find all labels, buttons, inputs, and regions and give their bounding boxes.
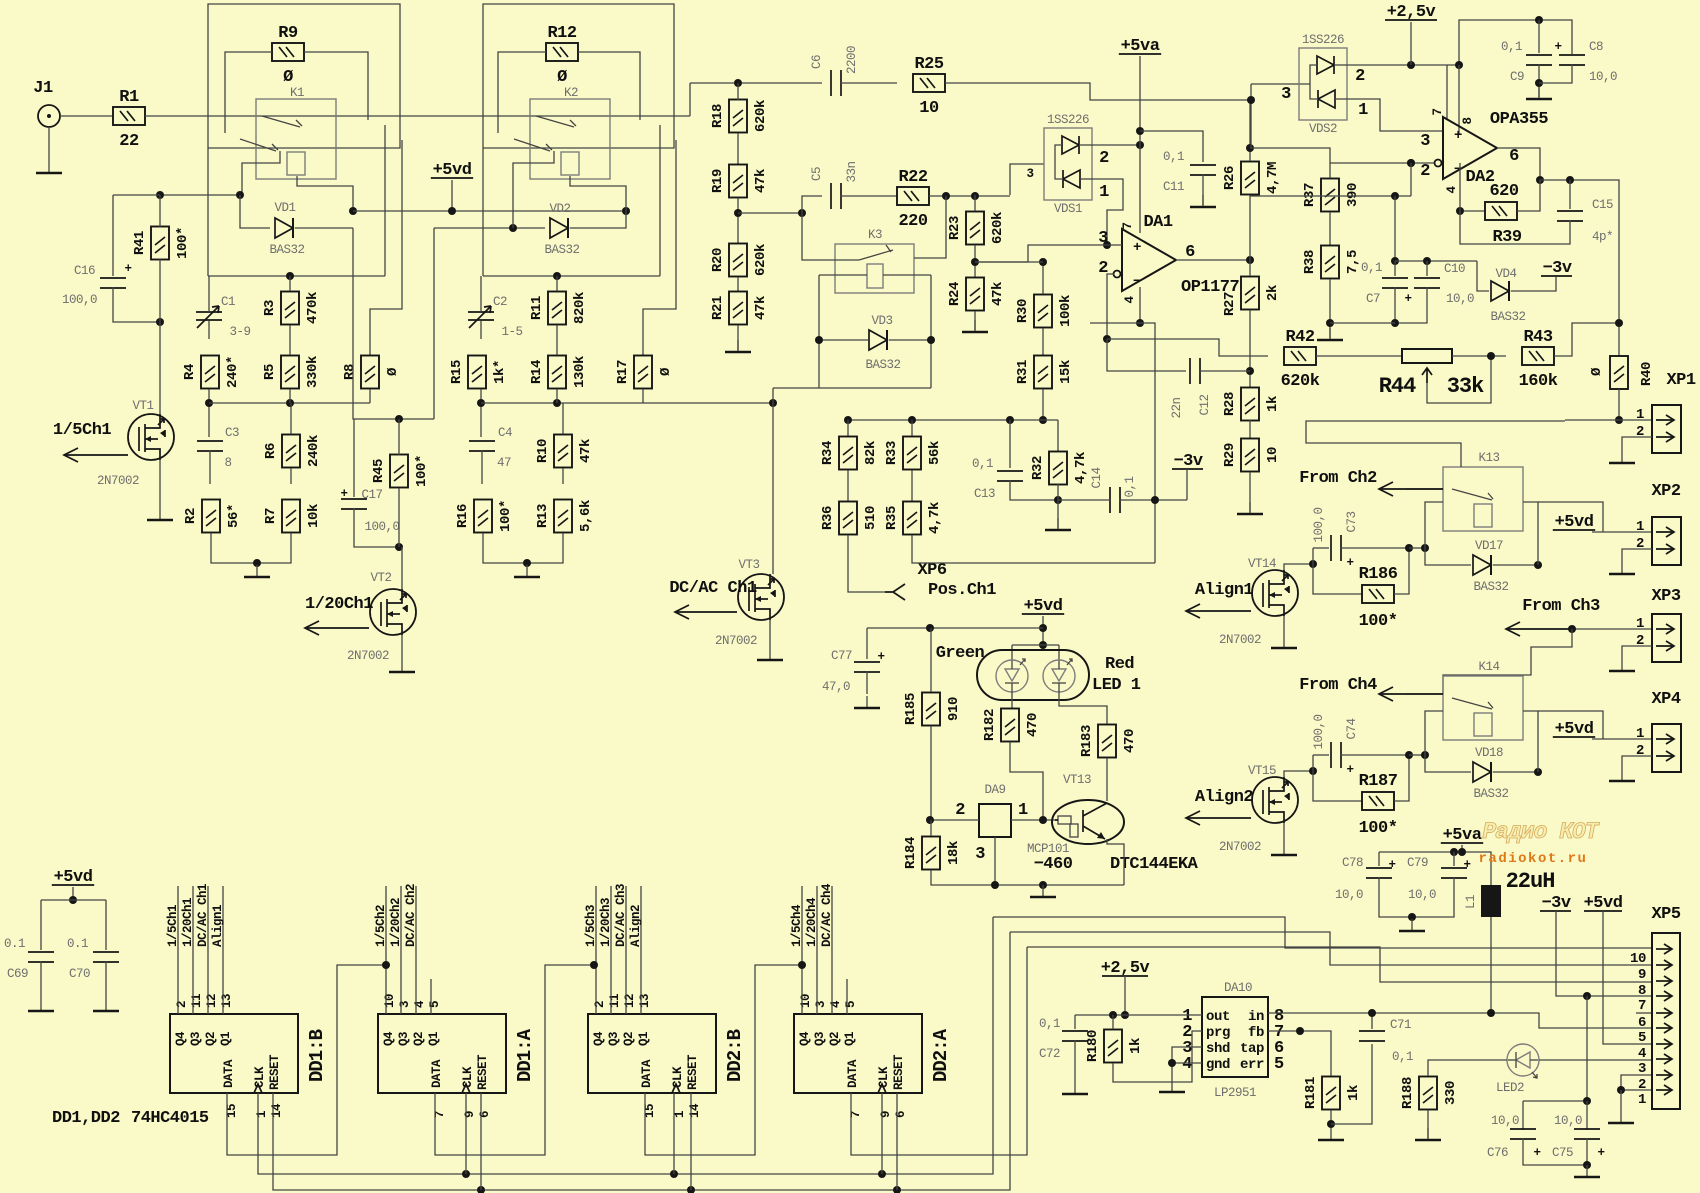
svg-text:14: 14: [688, 1103, 702, 1118]
wire in net to pin5: [1268, 1013, 1652, 1028]
svg-text:240*: 240*: [225, 356, 241, 388]
svg-text:LED 1: LED 1: [1092, 676, 1141, 695]
LED LED2: [1507, 1044, 1539, 1078]
svg-text:C14: C14: [1090, 467, 1104, 488]
svg-text:L1: L1: [1464, 895, 1478, 909]
svg-text:Q2: Q2: [828, 1032, 842, 1046]
wire caps bottom rail: [1523, 1138, 1587, 1165]
connector XP2: [1636, 517, 1681, 565]
svg-text:100,0: 100,0: [1312, 507, 1326, 542]
svg-text:10,0: 10,0: [1446, 292, 1474, 306]
wire R35 bottom link: [912, 535, 1155, 563]
svg-text:C12: C12: [1198, 394, 1212, 415]
connector XP4: [1636, 724, 1681, 772]
svg-text:6: 6: [894, 1111, 908, 1118]
svg-text:R14: R14: [529, 360, 545, 384]
junction From Ch3: [1568, 625, 1576, 633]
wire VDS1 pin1 to DA1: [1092, 179, 1123, 245]
resistor R19: [710, 165, 769, 198]
svg-text:22: 22: [119, 132, 139, 151]
junction R32 bottom: [1054, 496, 1062, 504]
wire R3 top lead: [289, 276, 291, 291]
wire R30-R31: [1042, 328, 1044, 355]
svg-text:390: 390: [1345, 183, 1361, 207]
svg-text:VT13: VT13: [1063, 773, 1091, 787]
power +5va: [1441, 826, 1483, 845]
svg-text:Ø: Ø: [557, 68, 567, 87]
signal DC/AC Ch1: [207, 886, 209, 1014]
svg-text:+: +: [1454, 128, 1462, 144]
svg-text:2: 2: [1355, 67, 1365, 86]
svg-text:3: 3: [1026, 167, 1033, 181]
wire K13 out riser: [1538, 502, 1603, 532]
svg-text:2N7002: 2N7002: [1219, 633, 1261, 647]
svg-text:J1: J1: [33, 79, 53, 98]
svg-text:+: +: [1463, 858, 1470, 872]
svg-text:2: 2: [175, 1001, 189, 1008]
wire C9 top lead: [1538, 20, 1540, 53]
wire R32 to C14: [1058, 499, 1111, 501]
wire K3 coil right pin: [883, 274, 931, 276]
capacitor C69: [28, 952, 54, 962]
svg-text:9: 9: [463, 1111, 477, 1118]
svg-text:15k: 15k: [1058, 360, 1074, 384]
signal 1/5Ch2: [385, 886, 387, 1014]
svg-text:VDS2: VDS2: [1309, 122, 1337, 136]
wire R11 to R14: [556, 325, 558, 355]
wire R41 top: [159, 195, 161, 227]
svg-text:+: +: [1388, 858, 1395, 872]
svg-text:R7: R7: [263, 508, 279, 524]
svg-text:DATA: DATA: [846, 1059, 860, 1088]
wire DA2 pin8: [1458, 65, 1460, 135]
svg-text:10: 10: [1265, 447, 1281, 463]
wire CLK DD2:A: [881, 1093, 883, 1174]
svg-text:XP6: XP6: [917, 561, 946, 580]
junction L1 in: [1487, 1009, 1495, 1017]
junction C74 left: [1309, 767, 1317, 775]
svg-text:VT15: VT15: [1248, 764, 1276, 778]
svg-text:Q3: Q3: [397, 1032, 411, 1046]
svg-text:Q1: Q1: [427, 1032, 441, 1046]
wire K14 coil left: [1425, 711, 1443, 755]
junction VD2: [509, 224, 517, 232]
svg-text:BAS32: BAS32: [1490, 310, 1525, 324]
svg-text:XP2: XP2: [1651, 482, 1680, 501]
junction out DA2: [1536, 176, 1544, 184]
capacitor C4: [469, 441, 495, 451]
IC DA10 LP2951: [1202, 997, 1268, 1077]
svg-text:R34: R34: [820, 441, 836, 465]
svg-text:LP2951: LP2951: [1214, 1086, 1256, 1100]
wire RESET bus: [273, 932, 1010, 1190]
svg-text:VT3: VT3: [738, 558, 759, 572]
wire R25 to VDS2 node: [945, 83, 1251, 100]
svg-text:Q3: Q3: [189, 1032, 203, 1046]
resistor R43: [1519, 328, 1558, 391]
wire R23 tap to DA1 in: [975, 245, 1122, 262]
junction C74 right: [1405, 751, 1413, 759]
capacitor C8: [1559, 55, 1585, 65]
resistor R187: [1359, 772, 1398, 838]
resistor R22: [897, 168, 929, 231]
wire VT14 source: [1283, 616, 1285, 648]
svg-text:10: 10: [1630, 951, 1646, 967]
wire XP4 pin1: [1592, 738, 1652, 740]
connector XP3: [1636, 614, 1681, 662]
svg-text:8: 8: [1461, 117, 1475, 124]
junction -3v: [1151, 496, 1159, 504]
svg-text:3: 3: [1281, 85, 1291, 104]
svg-text:100*: 100*: [1359, 612, 1398, 631]
power +5vd K2 area: [431, 161, 473, 180]
wire K13 to XP1 pin1: [1306, 421, 1565, 467]
wire R28 to R29: [1249, 420, 1251, 438]
junction +5va vds1: [1136, 141, 1144, 149]
svg-text:out: out: [1206, 1009, 1230, 1025]
diode VD2: [550, 218, 568, 238]
junction R26 feedback: [1246, 144, 1254, 152]
wire C69 top: [40, 900, 42, 950]
svg-text:Align2: Align2: [629, 905, 643, 947]
wire DATA to XP5 pin8: [1027, 947, 1652, 982]
svg-text:2: 2: [1638, 1077, 1646, 1093]
resistor R11: [529, 292, 588, 325]
wire to C6 node: [689, 83, 691, 116]
svg-text:3-9: 3-9: [229, 325, 250, 339]
svg-text:1-5: 1-5: [501, 325, 522, 339]
wire R188 to LED2: [1428, 1060, 1507, 1062]
ground XP5 pins12: [1608, 1122, 1634, 1125]
ground XP4: [1609, 780, 1635, 783]
LED1 dual: [977, 650, 1089, 700]
wire LED2 to pin3: [1539, 1059, 1652, 1061]
wire R10 to R13: [562, 468, 564, 484]
wire to VD1: [240, 195, 270, 228]
power +2,5v da10: [1101, 959, 1150, 978]
svg-text:1/20Ch1: 1/20Ch1: [181, 898, 195, 947]
ground C72: [1062, 1082, 1088, 1094]
inductor L1 22uH: [1464, 885, 1501, 917]
ground C78C79: [1399, 919, 1425, 931]
svg-text:+: +: [1133, 240, 1141, 256]
junction wiper: [1487, 352, 1495, 360]
svg-text:10,0: 10,0: [1491, 1114, 1519, 1128]
svg-text:330: 330: [1443, 1081, 1459, 1105]
svg-text:2N7002: 2N7002: [97, 474, 139, 488]
svg-text:470: 470: [1122, 729, 1138, 753]
svg-text:12: 12: [623, 994, 637, 1008]
wire R32 top lead: [1057, 420, 1059, 452]
wire CLK bus: [258, 917, 993, 1174]
ground C70: [93, 1010, 119, 1013]
wire VT15 source: [1283, 823, 1285, 855]
svg-text:1/5Ch1: 1/5Ch1: [53, 421, 112, 440]
junction R3 top: [286, 272, 294, 280]
junction R32 top: [1039, 416, 1047, 424]
ground C77: [854, 696, 880, 708]
wire C15 bottom loop: [1460, 211, 1570, 244]
svg-text:C9: C9: [1510, 70, 1524, 84]
wire divider1 ground rail: [211, 533, 291, 563]
wire L1 bottom: [1490, 917, 1492, 1013]
svg-text:7: 7: [1121, 222, 1135, 229]
IC DD2:A 74HC4015: [794, 994, 952, 1118]
svg-text:in: in: [1248, 1009, 1264, 1025]
wire R30 top: [1042, 262, 1044, 294]
junction R23 top: [971, 192, 979, 200]
wire R188 bottom: [1427, 1110, 1429, 1138]
svg-text:1: 1: [1099, 183, 1109, 202]
svg-text:910: 910: [946, 697, 962, 721]
wire VD17 anode: [1425, 548, 1471, 565]
svg-text:100*: 100*: [1359, 819, 1398, 838]
svg-text:R24: R24: [947, 282, 963, 306]
svg-text:CLK: CLK: [253, 1066, 267, 1088]
IC DD2:B 74HC4015: [588, 994, 746, 1118]
watermark radiokot: [1479, 819, 1600, 867]
svg-text:100,0: 100,0: [364, 520, 399, 534]
svg-text:C8: C8: [1589, 40, 1603, 54]
svg-text:DATA: DATA: [430, 1059, 444, 1088]
junction divider1 tap: [205, 399, 213, 407]
wire R12 left link: [498, 52, 546, 133]
capacitor C2 variable: [468, 306, 494, 328]
svg-text:Q2: Q2: [622, 1032, 636, 1046]
wire c69 c70 rail: [41, 899, 106, 901]
junction R38 gnd: [1326, 319, 1334, 327]
wire R31 bottom: [1042, 389, 1044, 420]
wire green to R182: [1011, 691, 1013, 708]
svg-text:+: +: [1554, 40, 1561, 54]
svg-text:9: 9: [1638, 967, 1646, 983]
wire +5va to DA1 pin7: [1139, 56, 1141, 233]
svg-text:RESET: RESET: [686, 1054, 700, 1090]
junction VT2 drain: [395, 543, 403, 551]
svg-text:fb: fb: [1248, 1025, 1264, 1041]
junction: [462, 1170, 470, 1178]
svg-text:From Ch4: From Ch4: [1299, 676, 1377, 695]
junction VD17 right: [1534, 561, 1542, 569]
wire K2 coil right: [570, 176, 626, 211]
svg-text:Q1: Q1: [843, 1032, 857, 1046]
wire pin4 stub: [1090, 322, 1140, 324]
junction: [670, 1170, 678, 1178]
junction caps bottom: [1583, 1161, 1591, 1169]
svg-text:Q4: Q4: [174, 1031, 188, 1046]
svg-text:100*: 100*: [498, 500, 514, 532]
junction VT3 tap: [769, 399, 777, 407]
svg-text:radiokot.ru: radiokot.ru: [1479, 851, 1588, 867]
svg-text:1: 1: [673, 1111, 687, 1118]
svg-text:4: 4: [1182, 1055, 1192, 1074]
ground VT15: [1271, 854, 1297, 857]
svg-text:1: 1: [1636, 407, 1644, 423]
svg-text:3: 3: [398, 1001, 412, 1008]
svg-text:R17: R17: [615, 360, 631, 384]
svg-text:7: 7: [1638, 998, 1646, 1014]
wire red lead: [1058, 645, 1060, 661]
wire DA9 pin3: [994, 837, 996, 885]
svg-text:1: 1: [255, 1111, 269, 1118]
wire C14 to -3v rail: [1119, 499, 1187, 501]
power +2,5v top: [1385, 3, 1437, 22]
wire VT15 drain: [1284, 771, 1313, 777]
wire tap to C5: [738, 212, 802, 214]
svg-text:22uH: 22uH: [1506, 869, 1555, 894]
wire R18-R19: [737, 133, 739, 165]
junction gnd1: [253, 559, 261, 567]
svg-text:+: +: [1404, 292, 1411, 306]
resistor R36: [820, 502, 879, 535]
junction: [1407, 159, 1415, 167]
resistor R1: [113, 88, 145, 151]
svg-text:Green: Green: [936, 644, 985, 663]
svg-text:MCP101: MCP101: [1027, 842, 1069, 856]
wire DATA DD1:B chain: [227, 965, 386, 1155]
wire VD3 loop bottom: [819, 387, 931, 389]
capacitor C79: [1441, 868, 1467, 878]
svg-text:56*: 56*: [226, 504, 242, 528]
resistor R28: [1222, 388, 1281, 421]
wire R34 top rail: [848, 419, 893, 421]
svg-text:47k: 47k: [753, 169, 769, 193]
svg-text:R40: R40: [1639, 362, 1655, 386]
junction C71 in: [1368, 1009, 1376, 1017]
svg-text:Align1: Align1: [211, 905, 225, 947]
signal DC/AC Ch2: [415, 886, 417, 1014]
svg-text:BAS32: BAS32: [269, 243, 304, 257]
wire R188 top: [1427, 1062, 1429, 1076]
svg-text:+: +: [1346, 556, 1353, 570]
svg-text:VT14: VT14: [1248, 557, 1276, 571]
junction C15 top: [1566, 176, 1574, 184]
svg-text:C70: C70: [69, 967, 90, 981]
resistor R42: [1281, 328, 1320, 391]
svg-text:Ø: Ø: [283, 68, 293, 87]
svg-text:+: +: [1346, 763, 1353, 777]
wire C1 bottom lead: [208, 321, 210, 339]
svg-text:10: 10: [919, 99, 939, 118]
wire +5vd to pin4: [1603, 911, 1652, 1044]
signal DC/AC Ch4: [831, 886, 833, 1014]
svg-text:OPA355: OPA355: [1490, 110, 1549, 129]
wire to R38 gnd node: [1330, 322, 1395, 324]
junction R33 top: [908, 416, 916, 424]
resistor R15: [449, 356, 508, 389]
wire R187 right: [1394, 755, 1409, 801]
wire -3v drop: [1586, 996, 1588, 1101]
IC DA9 MCP101: [979, 804, 1011, 837]
resistor R17: [615, 356, 674, 389]
wire C7C10 top rail: [1395, 260, 1477, 262]
svg-text:6: 6: [1509, 147, 1519, 166]
svg-text:DC/AC Ch1: DC/AC Ch1: [196, 884, 210, 947]
junction: [156, 191, 164, 199]
relay K14: [1443, 660, 1523, 740]
svg-text:BAS32: BAS32: [544, 243, 579, 257]
svg-text:1/5Ch3: 1/5Ch3: [584, 905, 598, 947]
svg-text:2200: 2200: [845, 46, 859, 74]
svg-text:DA9: DA9: [984, 783, 1005, 797]
svg-text:prg: prg: [1206, 1025, 1230, 1041]
wire +5va tick: [1461, 845, 1463, 852]
wire VD3 anode: [819, 339, 868, 341]
resistor R29: [1222, 439, 1281, 472]
junction C79 top: [1450, 848, 1458, 856]
svg-text:470: 470: [1025, 713, 1041, 737]
resistor R32: [1030, 452, 1089, 485]
wire pin6 stub: [1636, 1012, 1652, 1014]
wire R180 to prg: [1113, 1031, 1202, 1082]
junction: [687, 1186, 695, 1193]
svg-text:VD17: VD17: [1475, 539, 1503, 553]
svg-text:33n: 33n: [845, 161, 859, 182]
wire R4 bottom: [208, 389, 210, 437]
svg-text:10,0: 10,0: [1335, 888, 1363, 902]
wire XP3 pin2 gnd: [1622, 646, 1652, 670]
svg-text:XP5: XP5: [1651, 905, 1680, 924]
junction VD3 left: [815, 336, 823, 344]
junction C8 bottom: [1535, 79, 1543, 87]
wire R184 top lead: [930, 820, 932, 836]
svg-text:BAS32: BAS32: [1473, 580, 1508, 594]
svg-text:C73: C73: [1345, 511, 1359, 532]
resistor R37: [1302, 179, 1361, 212]
capacitor C16: [100, 278, 126, 288]
wire R44 wiper: [1427, 356, 1491, 403]
wire C72 bottom: [1074, 1040, 1076, 1082]
svg-text:Радио КОТ: Радио КОТ: [1482, 819, 1599, 845]
ground C69: [28, 1010, 54, 1013]
svg-text:R25: R25: [914, 55, 943, 74]
wire VD1 cathode: [295, 227, 353, 229]
wire C16 top rail: [113, 194, 160, 196]
wire K14 common: [1406, 693, 1443, 695]
svg-text:Q2: Q2: [204, 1032, 218, 1046]
wire R15 bottom: [480, 389, 482, 437]
ground VT2: [389, 671, 415, 674]
wire ref net: [1250, 195, 1411, 197]
wire shd gnd tie: [1172, 1047, 1202, 1080]
wire VT2 drain lead: [401, 547, 403, 589]
svg-text:1SS226: 1SS226: [1047, 113, 1089, 127]
wire ref drop: [1394, 196, 1396, 261]
wire R37 top lead: [1329, 163, 1331, 178]
wire XP1 pin2 gnd: [1622, 437, 1652, 462]
wire Ch3 to K14: [1443, 629, 1572, 694]
junction C7 bottom: [1391, 319, 1399, 327]
wire DA9 pin1: [1011, 819, 1055, 821]
relay K2: [530, 99, 610, 179]
potentiometer R44: [1379, 349, 1484, 399]
wire C6 to R25: [840, 82, 897, 84]
dual diode VDS2: [1299, 33, 1347, 136]
wire VDS2 node riser: [1250, 84, 1252, 148]
wire K1 coil right: [297, 176, 353, 210]
svg-text:3: 3: [975, 845, 985, 864]
svg-text:1k*: 1k*: [492, 360, 508, 384]
wire C76 top: [1522, 1101, 1524, 1130]
wire out to R40: [1540, 180, 1619, 356]
wire R19-R20: [737, 198, 739, 244]
svg-text:K3: K3: [868, 228, 882, 242]
transistor VT13 DTC144EKA: [1052, 800, 1124, 844]
svg-text:R32: R32: [1030, 456, 1046, 480]
wire R42 to R44: [1316, 355, 1402, 357]
resistor R181: [1303, 1077, 1362, 1110]
wire R34-R36: [847, 470, 849, 501]
